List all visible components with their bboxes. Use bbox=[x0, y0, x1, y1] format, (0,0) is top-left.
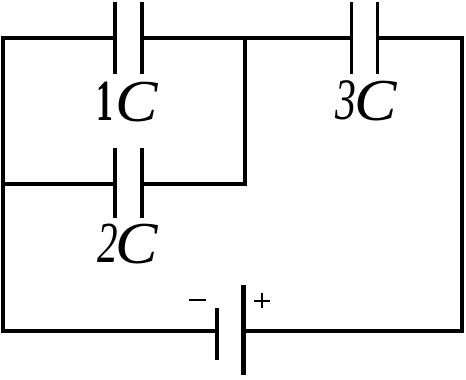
battery V1 negative plate (short) bbox=[215, 308, 220, 360]
wire right side bbox=[460, 36, 463, 333]
capacitor C3 right plate bbox=[376, 2, 380, 75]
battery positive sign vertical bar bbox=[261, 293, 264, 309]
battery V1 positive plate (long) bbox=[241, 285, 246, 375]
capacitor C1 value label 1C bbox=[96, 72, 113, 130]
wire bottom segment left bbox=[1, 329, 219, 333]
battery positive sign horizontal bar bbox=[254, 300, 270, 303]
capacitor C1 right plate bbox=[140, 2, 143, 74]
wire bottom segment right bbox=[241, 329, 464, 333]
wire middle vertical bbox=[243, 36, 247, 186]
wire middle horizontal right bbox=[140, 182, 246, 186]
wire left side bbox=[1, 36, 4, 333]
battery negative sign bbox=[189, 299, 206, 302]
wire top segment middle bbox=[140, 36, 353, 40]
capacitor C3 left plate bbox=[350, 2, 354, 75]
capacitor C1 left plate bbox=[113, 2, 116, 74]
capacitor C3 value label 3C bbox=[335, 71, 356, 129]
capacitor C2 left plate bbox=[113, 148, 116, 218]
capacitor C2 value label 2C bbox=[97, 214, 118, 272]
wire top segment right bbox=[376, 36, 464, 40]
wire middle horizontal left bbox=[1, 182, 116, 186]
capacitor C2 right plate bbox=[140, 148, 144, 218]
wire top segment left bbox=[1, 36, 116, 40]
